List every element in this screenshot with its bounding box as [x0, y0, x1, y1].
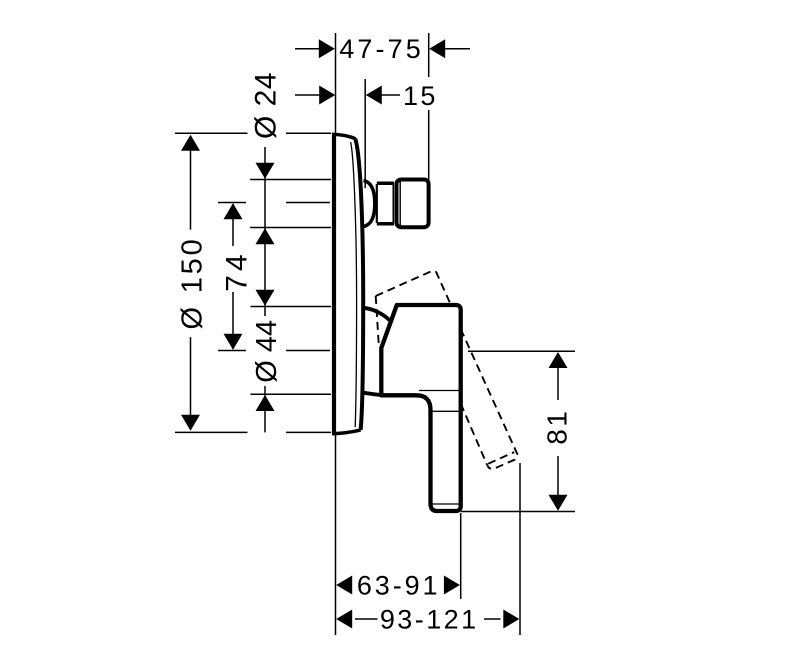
svg-text:Ø 44: Ø 44: [251, 320, 283, 383]
svg-text:93-121: 93-121: [380, 605, 476, 635]
svg-text:81: 81: [542, 409, 573, 445]
svg-text:74: 74: [221, 250, 254, 291]
svg-text:63-91: 63-91: [357, 571, 438, 601]
svg-text:47-75: 47-75: [339, 34, 421, 64]
svg-text:Ø 150: Ø 150: [177, 237, 209, 330]
svg-text:Ø 24: Ø 24: [250, 72, 283, 139]
